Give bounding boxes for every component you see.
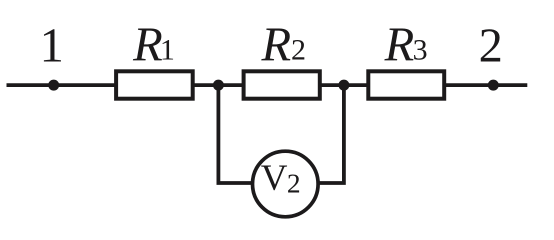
wire: junction B down to voltmeter right terminal	[318, 85, 344, 183]
wire: junction B to R3	[320, 83, 369, 87]
wire: left lead to resistor R1	[7, 83, 117, 87]
node 2 label	[479, 19, 503, 72]
wire: junction A down to voltmeter left terminal	[218, 85, 252, 183]
svg-text:1: 1	[40, 19, 64, 72]
svg-text:3: 3	[413, 33, 428, 66]
svg-text:1: 1	[160, 33, 175, 66]
resistor R2 value label	[261, 19, 307, 72]
node A (junction of R1, R2 and voltmeter)	[213, 80, 224, 91]
resistor R3	[368, 71, 444, 98]
svg-text:2: 2	[291, 33, 306, 66]
svg-text:2: 2	[287, 168, 301, 199]
node B (junction of R2, R3 and voltmeter)	[338, 80, 349, 91]
svg-text:V: V	[261, 158, 288, 199]
node 1 label	[40, 19, 64, 72]
voltmeter V2 label	[261, 158, 301, 199]
resistor R1 value label	[132, 19, 175, 72]
svg-text:R: R	[132, 19, 163, 72]
voltmeter V2	[252, 151, 318, 217]
resistor R1	[116, 71, 193, 98]
wire: R3 to right lead end	[444, 83, 527, 87]
resistor R2	[244, 71, 320, 98]
svg-text:R: R	[261, 19, 292, 72]
svg-text:R: R	[384, 19, 415, 72]
node 2	[488, 80, 499, 91]
wire: R1 to junction A	[192, 83, 244, 87]
node 1	[48, 80, 59, 91]
svg-text:2: 2	[479, 19, 503, 72]
resistor R3 value label	[384, 19, 428, 72]
